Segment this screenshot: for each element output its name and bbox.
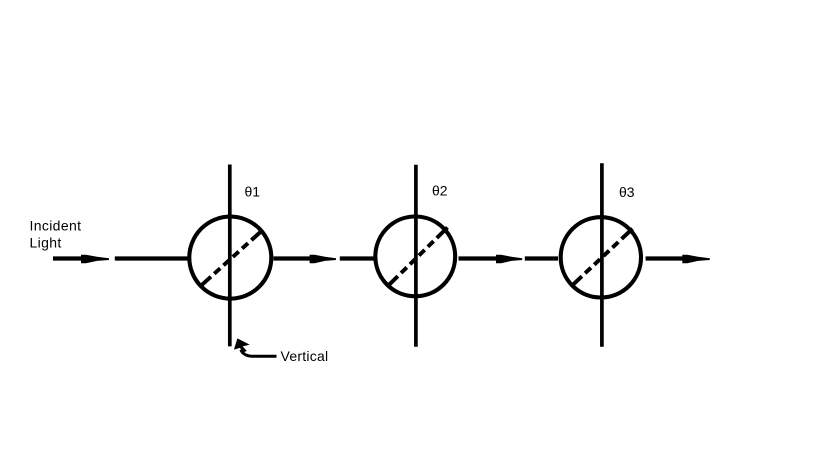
vertical callout arrowhead [234, 338, 250, 352]
wire beam P2 to P3 [459, 256, 498, 260]
polarizer P1 vertical axis line [228, 165, 232, 347]
wire outgoing beam [646, 256, 683, 260]
polarizer P2 vertical axis line [414, 165, 418, 347]
polarizer P3 circle [561, 217, 641, 297]
vertical callout leader line [241, 350, 277, 357]
polarizer P1 circle [189, 217, 271, 299]
svg-text:Vertical: Vertical [281, 348, 329, 364]
svg-text:Light: Light [30, 235, 62, 251]
arrowhead incident beam [81, 255, 109, 264]
wire beam into polarizer 2 [340, 256, 374, 260]
arrowhead outgoing beam [682, 255, 710, 264]
arrowhead beam P1 to P2 [310, 255, 336, 264]
wire incident beam segment [53, 256, 82, 260]
wire beam into polarizer 3 [525, 256, 558, 260]
svg-text:θ1: θ1 [245, 184, 261, 200]
label Incident Light [30, 218, 82, 251]
wire beam into polarizer 1 [115, 256, 188, 260]
svg-text:θ2: θ2 [432, 183, 448, 199]
polarizer P2 circle [375, 217, 455, 297]
polarizer P3 vertical axis line [600, 163, 604, 347]
polarizer P3 transmission axis (dashed) [573, 229, 633, 285]
arrowhead beam P2 to P3 [496, 255, 522, 264]
wire beam P1 to P2 [274, 256, 311, 260]
svg-text:Incident: Incident [30, 218, 82, 234]
svg-text:θ3: θ3 [619, 184, 635, 200]
polarizer P1 transmission axis (dashed) [200, 230, 262, 286]
polarizer P2 transmission axis (dashed) [388, 228, 448, 287]
